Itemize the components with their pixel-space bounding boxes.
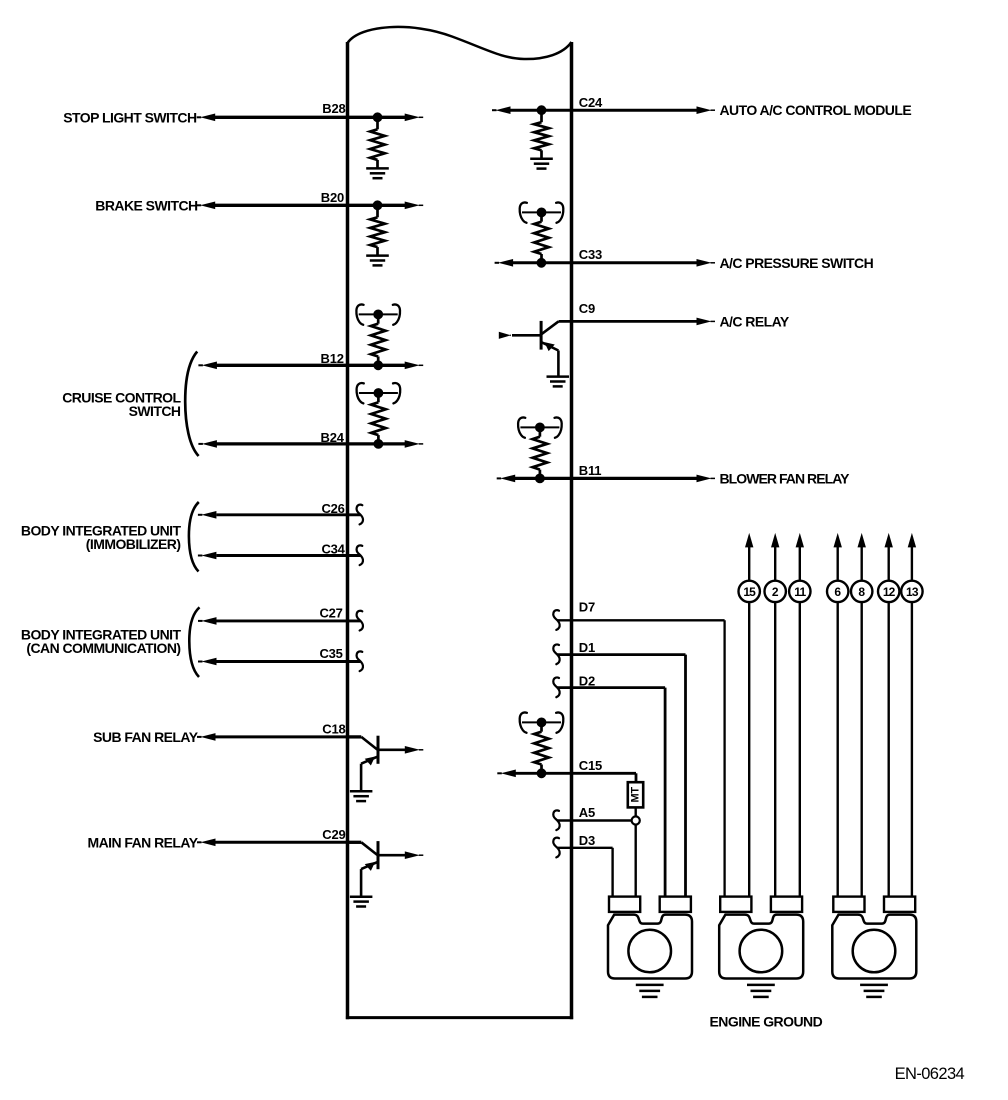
engine ground block 2 (D7, 15, 2, 11) [719, 897, 803, 997]
transistor Q1 (sub fan relay driver) with ground [346, 736, 423, 801]
node B11: blower fan relay wire [497, 475, 715, 483]
svg-text:12: 12 [883, 585, 896, 599]
node C24: auto A/C control module wire [492, 106, 715, 114]
svg-text:(IMMOBILIZER): (IMMOBILIZER) [86, 536, 181, 552]
transistor Q3 (A/C relay driver) with base arrow and ground [499, 321, 569, 387]
coil squiggle at C27 [357, 611, 363, 631]
svg-text:B24: B24 [321, 430, 345, 445]
ground wire 13 with up arrow and terminal circle [901, 533, 922, 897]
junction on B12 wire [374, 361, 383, 370]
node B20: brake switch wire [197, 202, 424, 210]
ground wire 11 with up arrow and terminal circle [789, 533, 810, 897]
node C18: sub fan relay wire [197, 733, 348, 741]
node B12: cruise control switch wire 1 [198, 362, 423, 370]
pull resistor on B20 [366, 209, 389, 265]
svg-text:B28: B28 [322, 101, 345, 116]
svg-text:B11: B11 [579, 463, 602, 478]
node B24: cruise control switch wire 2 [198, 440, 423, 448]
svg-text:SWITCH: SWITCH [129, 403, 181, 419]
ground wire 2 with up arrow and terminal circle [765, 533, 786, 897]
svg-text:C24: C24 [579, 95, 603, 110]
ground wire 15 with up arrow and terminal circle [739, 533, 760, 897]
svg-text:ENGINE GROUND: ENGINE GROUND [710, 1014, 823, 1030]
brace for body integrated unit (CAN) group [189, 607, 199, 677]
node C34: body integrated unit (immobilizer) wire 2 [198, 552, 360, 560]
coil squiggle at C34 [357, 545, 363, 565]
svg-text:C34: C34 [321, 542, 345, 557]
svg-text:MT: MT [630, 787, 642, 803]
svg-text:(CAN COMMUNICATION): (CAN COMMUNICATION) [26, 640, 180, 656]
brace for body integrated unit (immobilizer) group [189, 502, 199, 572]
svg-text:B12: B12 [321, 351, 344, 366]
svg-text:B20: B20 [321, 190, 344, 205]
node C33: A/C pressure switch wire [495, 259, 715, 267]
node D7 wire to engine ground [557, 620, 725, 897]
ECM connector box: right vertical wire [570, 42, 574, 1019]
node C29: main fan relay wire [197, 839, 348, 847]
ground wire 8 with up arrow and terminal circle [851, 533, 872, 897]
node C27: body integrated unit (CAN) wire 1 [198, 617, 360, 625]
node B28: stop light switch wire [197, 114, 424, 122]
node C26: body integrated unit (immobilizer) wire 1 [198, 511, 360, 519]
svg-text:13: 13 [906, 585, 919, 599]
svg-text:C29: C29 [322, 827, 345, 842]
svg-text:SUB FAN RELAY: SUB FAN RELAY [93, 729, 199, 745]
ECM connector box: left vertical wire [346, 42, 350, 1019]
svg-text:11: 11 [794, 585, 806, 599]
engine ground block 1 (D3, A5, D2, D1) [608, 897, 692, 997]
svg-text:BRAKE SWITCH: BRAKE SWITCH [95, 197, 198, 213]
svg-text:D7: D7 [579, 600, 595, 615]
pull-up resistor above C33 [520, 202, 564, 262]
junction on C33 wire [537, 258, 546, 267]
svg-text:C33: C33 [579, 247, 602, 262]
pull-up resistor above B11 [518, 417, 562, 478]
coil squiggle at D2 [553, 677, 559, 697]
connector circle at A5 [632, 816, 640, 824]
coil squiggle at D7 [553, 610, 559, 630]
node D1 wire to engine ground [557, 655, 686, 897]
svg-text:A5: A5 [579, 805, 595, 820]
junction on C15 wire [537, 769, 546, 778]
svg-text:2: 2 [772, 585, 779, 599]
coil squiggle at C26 [357, 505, 363, 525]
svg-text:C26: C26 [321, 501, 344, 516]
svg-text:6: 6 [834, 585, 841, 599]
transistor Q2 (main fan relay driver) with ground [346, 841, 423, 906]
coil squiggle at A5 [553, 810, 559, 830]
node D3 wire to engine ground [557, 848, 613, 897]
junction on B11 wire [536, 474, 545, 483]
junction on B20 wire [373, 201, 382, 210]
node A5 wire [557, 819, 632, 821]
svg-text:C9: C9 [579, 301, 595, 316]
junction on B24 wire [374, 440, 383, 449]
svg-text:A/C PRESSURE SWITCH: A/C PRESSURE SWITCH [720, 255, 874, 271]
junction on C24 wire [537, 106, 546, 115]
MT (manual transmission) box [628, 782, 643, 807]
svg-text:AUTO A/C CONTROL MODULE: AUTO A/C CONTROL MODULE [720, 102, 912, 118]
resistor between B12 and B24 [357, 383, 401, 444]
svg-text:A/C RELAY: A/C RELAY [720, 313, 790, 329]
node C15 wire into MT box [497, 770, 636, 783]
engine ground block 3 (6, 8, 12, 13) [832, 897, 916, 997]
ECM connector box: wavy top break line [348, 27, 572, 59]
svg-text:C27: C27 [319, 606, 342, 621]
coil squiggle at D3 [553, 838, 559, 858]
svg-text:D3: D3 [579, 833, 595, 848]
pull resistor on B28 [366, 121, 389, 178]
svg-text:MAIN FAN RELAY: MAIN FAN RELAY [87, 834, 198, 850]
node C9: A/C relay wire [559, 318, 716, 326]
coil squiggle at D1 [553, 644, 559, 664]
svg-text:EN-06234: EN-06234 [895, 1065, 965, 1083]
svg-text:D1: D1 [579, 640, 595, 655]
svg-text:8: 8 [858, 585, 865, 599]
ECM connector box: bottom wire [346, 1016, 573, 1019]
brace for cruise control switch group [185, 352, 198, 457]
wire from MT box to node A5 [635, 807, 637, 816]
svg-text:D2: D2 [579, 674, 595, 689]
node C35: body integrated unit (CAN) wire 2 [198, 658, 360, 666]
svg-text:C35: C35 [319, 646, 342, 661]
svg-text:15: 15 [743, 585, 756, 599]
svg-text:C15: C15 [579, 758, 602, 773]
svg-text:C18: C18 [322, 722, 345, 737]
wire from A5 down to engine ground [635, 825, 637, 897]
svg-text:BLOWER FAN RELAY: BLOWER FAN RELAY [720, 470, 851, 486]
ground wire 12 with up arrow and terminal circle [878, 533, 899, 897]
pull-up resistor above C15 [520, 712, 564, 773]
resistor above B12 (cruise switch pull-up) [356, 304, 400, 365]
coil squiggle at C35 [357, 651, 363, 671]
junction on B28 wire [373, 113, 382, 122]
ground wire 6 with up arrow and terminal circle [827, 533, 848, 897]
svg-text:STOP LIGHT SWITCH: STOP LIGHT SWITCH [63, 109, 197, 125]
node D2 wire to engine ground [557, 688, 665, 897]
pull resistor on C24 [530, 114, 553, 168]
